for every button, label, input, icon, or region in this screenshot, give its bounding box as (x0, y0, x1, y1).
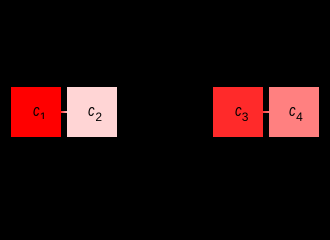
wire: connector between C3 and C4 (261, 111, 270, 113)
node C2: pale pink square (67, 87, 117, 137)
node C1: red square (11, 87, 61, 137)
label c3 (234, 101, 236, 103)
label c4 (288, 101, 290, 103)
label c1 (32, 101, 34, 103)
cover for digit-1 foot serif (39, 119, 48, 121)
label c2 (87, 101, 89, 103)
wire: connector between C1 and C2 (59, 111, 68, 113)
node C4: salmon square (269, 87, 319, 137)
node C3: light red square (213, 87, 263, 137)
